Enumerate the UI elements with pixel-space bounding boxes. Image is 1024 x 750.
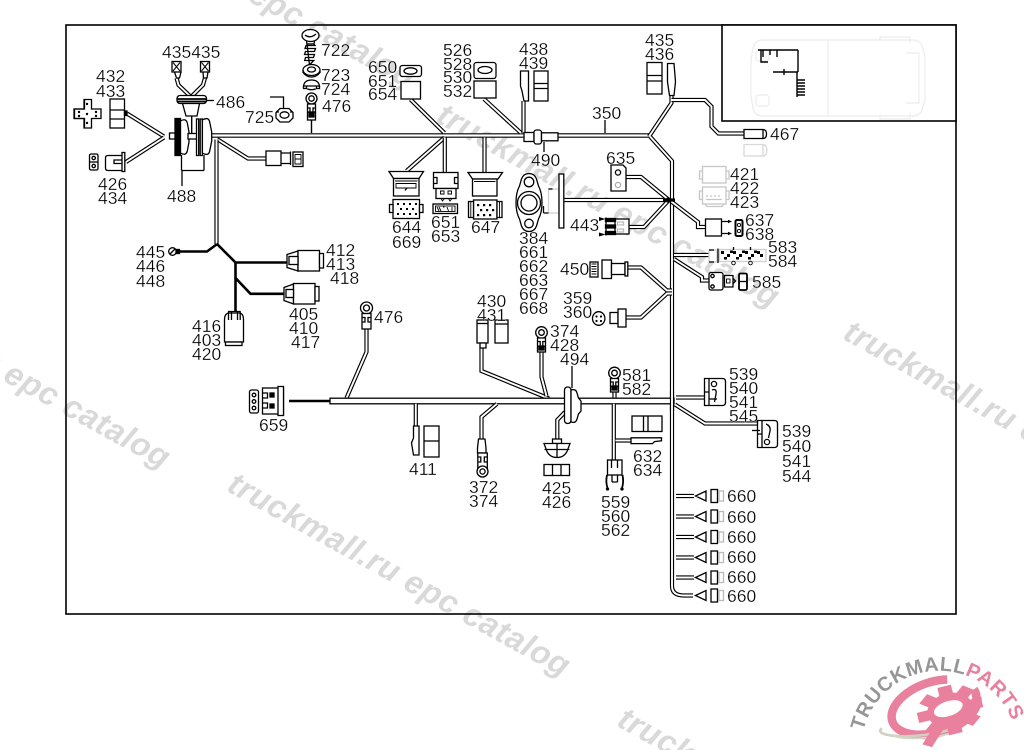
wire 476b to bottom bar — [347, 329, 367, 398]
wire hub to 432/433 — [127, 114, 164, 137]
wire trunk down-left from bar — [214, 140, 218, 245]
terminal 374/428 — [536, 327, 548, 352]
svg-text:423: 423 — [730, 192, 759, 212]
leader 490 — [543, 142, 545, 152]
svg-text:448: 448 — [136, 271, 165, 291]
grommet 486 — [177, 96, 207, 117]
washer 723 — [303, 65, 320, 78]
wire 374/428 to bottom bar — [542, 352, 547, 396]
connector 647 — [468, 173, 503, 220]
wire 443 plate to junction — [564, 198, 669, 202]
plate 443 — [544, 174, 564, 228]
wire hub to 426/434 — [126, 138, 164, 163]
wire 659 thick — [289, 400, 330, 403]
svg-text:562: 562 — [601, 520, 630, 540]
svg-text:660: 660 — [727, 486, 756, 506]
svg-text:476: 476 — [374, 307, 403, 327]
terminal 435 left — [172, 62, 181, 79]
wire junction to 637 — [672, 202, 706, 227]
wire 450 to trunk — [628, 268, 673, 291]
strip 583/584 — [709, 247, 766, 265]
fuse 439 — [534, 71, 548, 101]
inset harness routing — [758, 50, 805, 97]
svg-text:434: 434 — [98, 188, 127, 208]
svg-text:660: 660 — [727, 527, 756, 547]
wire 644 connector to bar — [407, 138, 445, 172]
svg-text:634: 634 — [633, 460, 662, 480]
wire 445 thick — [178, 245, 217, 252]
svg-text:476: 476 — [322, 96, 351, 116]
svg-text:660: 660 — [727, 547, 756, 567]
connector 426/434 fork — [106, 153, 125, 172]
svg-text:653: 653 — [431, 226, 460, 246]
wire 539/545 stub — [676, 395, 704, 399]
terminal 476 top — [306, 93, 317, 120]
svg-text:426: 426 — [542, 492, 571, 512]
connector 382 — [266, 151, 303, 167]
wire to 467 — [672, 100, 745, 134]
connector 651/653 — [433, 173, 458, 214]
svg-text:660: 660 — [727, 586, 756, 606]
wire 372/374 — [482, 404, 498, 439]
wire 411 stub — [414, 404, 418, 426]
svg-text:545: 545 — [729, 406, 758, 426]
svg-text:494: 494 — [560, 349, 589, 369]
main border — [66, 25, 956, 614]
wire 539/544 — [675, 405, 757, 424]
svg-text:350: 350 — [592, 103, 621, 123]
leader 725 — [270, 97, 284, 108]
wire 660 stubs — [676, 496, 694, 578]
terminal 372/374 — [477, 439, 488, 477]
svg-text:544: 544 — [782, 466, 811, 486]
connector 432/433 cross — [74, 100, 101, 129]
svg-text:417: 417 — [291, 332, 320, 352]
inset truck outline (ghost) — [751, 37, 925, 119]
connector 405/410/417 — [284, 284, 319, 305]
terminal 435 right — [201, 62, 210, 79]
terminal 445 — [169, 248, 180, 256]
wire thick tree 412/405/416 — [217, 244, 288, 312]
connector 443 comb — [599, 217, 629, 237]
wire 651 connector to bar — [443, 138, 447, 173]
connector 539/540/541/544 — [752, 421, 778, 448]
wire fork up to blade 435/436 — [649, 95, 672, 137]
bulb 585 — [709, 273, 747, 291]
wire 581 stub — [612, 392, 616, 398]
relay box 635 — [611, 165, 626, 191]
wire to 583 — [674, 253, 709, 257]
logo bottom right — [847, 654, 1024, 750]
wire trunk through bottom bar — [670, 391, 674, 411]
connector 416/403/420 — [225, 312, 244, 346]
wire 430 to bottom bar — [482, 348, 550, 399]
svg-text:660: 660 — [727, 567, 756, 587]
svg-text:660: 660 — [727, 507, 756, 527]
wire 647 connector to bar — [482, 138, 486, 173]
svg-text:374: 374 — [469, 491, 498, 511]
fuse 438 — [521, 71, 529, 101]
bottom bar — [330, 398, 674, 404]
wire 632 stub — [616, 438, 632, 442]
connector 411 — [412, 426, 440, 457]
svg-text:411: 411 — [409, 459, 437, 479]
svg-text:431: 431 — [477, 305, 506, 325]
svg-text:668: 668 — [519, 298, 548, 318]
connector 644/669 — [389, 172, 424, 219]
terminal 581/582 — [609, 367, 621, 392]
wire 359/360 to trunk — [626, 294, 672, 318]
sender 430/431 — [477, 320, 508, 348]
breaker 637/638 — [706, 219, 743, 236]
relay 632/634 — [631, 416, 662, 444]
leader 494 — [571, 366, 573, 388]
wire vertical harness trunk — [650, 137, 693, 596]
wire 559 — [612, 404, 616, 460]
screw 722 — [302, 30, 319, 66]
svg-text:585: 585 — [752, 272, 781, 292]
nut 725 — [276, 109, 293, 123]
svg-text:418: 418 — [330, 268, 359, 288]
fuse holder 450 — [590, 260, 628, 279]
terminal 476 bottom — [361, 302, 373, 329]
leader 486 — [206, 100, 214, 102]
wire 438 down to bar — [521, 101, 525, 133]
lamp 425/426 — [544, 439, 570, 476]
wire main top bar — [211, 133, 650, 138]
svg-text:420: 420 — [192, 344, 221, 364]
arrows + plugs 660 rows — [696, 490, 724, 603]
sensor 384 — [516, 174, 542, 232]
swirl ring — [884, 668, 987, 748]
connector 432/433 block — [110, 99, 127, 128]
bracket 488 — [182, 155, 205, 186]
svg-text:584: 584 — [768, 251, 797, 271]
svg-text:443: 443 — [570, 215, 599, 235]
connector 359/360 — [593, 309, 627, 327]
svg-text:725: 725 — [245, 107, 274, 127]
svg-text:436: 436 — [645, 44, 674, 64]
relay 526/528/530/532 — [474, 63, 496, 99]
svg-text:433: 433 — [96, 81, 125, 101]
connector 412/413/418 — [287, 251, 324, 272]
svg-text:435435: 435435 — [162, 42, 220, 62]
svg-text:490: 490 — [531, 150, 560, 170]
svg-text:486: 486 — [216, 92, 245, 112]
svg-text:360: 360 — [563, 302, 592, 322]
connector 659 body — [263, 387, 284, 416]
clamp discs — [170, 133, 176, 139]
connector 539/540/541/545 — [705, 379, 726, 406]
wire 443 connector to junction — [629, 200, 669, 227]
svg-text:488: 488 — [167, 186, 196, 206]
connector 467 — [744, 130, 767, 139]
wire 476 top single — [311, 120, 313, 133]
connector 426/434 small — [90, 154, 99, 170]
svg-text:659: 659 — [259, 415, 288, 435]
svg-text:582: 582 — [622, 379, 651, 399]
wire 650 down to bar — [411, 100, 445, 134]
connector 659 small — [250, 390, 259, 413]
wire hub to 382 — [217, 139, 266, 159]
svg-text:635: 635 — [606, 148, 635, 168]
inset box border — [722, 25, 956, 121]
relay 435/436 — [647, 63, 676, 96]
connector 559/560/562 — [606, 460, 623, 490]
relay 650/651/654 — [400, 66, 422, 100]
svg-text:654: 654 — [368, 84, 397, 104]
wire 526 down to bar — [484, 99, 521, 133]
leader 350 — [604, 120, 606, 133]
ghost connector under 467 — [744, 145, 767, 157]
grommet 374/428/494 — [565, 387, 582, 424]
hub clamps assembly — [170, 62, 212, 156]
svg-text:439: 439 — [519, 53, 548, 73]
svg-text:532: 532 — [443, 81, 472, 101]
gear — [910, 678, 990, 749]
wire 635 to junction — [626, 177, 669, 200]
washer 724 — [304, 80, 320, 90]
svg-text:450: 450 — [560, 259, 589, 279]
svg-text:647: 647 — [471, 217, 500, 237]
svg-text:467: 467 — [770, 124, 799, 144]
svg-text:669: 669 — [392, 232, 421, 252]
wire 425/426 — [557, 412, 565, 439]
ghost relays 421/422/423 — [700, 167, 730, 207]
wire to 585 — [674, 259, 709, 281]
svg-text:722: 722 — [321, 40, 350, 60]
node junction dot — [663, 198, 675, 201]
clip 490 — [524, 130, 558, 144]
